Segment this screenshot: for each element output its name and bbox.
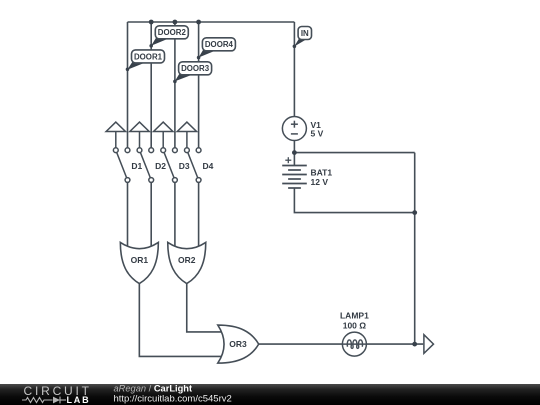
svg-text:D4: D4 [203,161,214,171]
flag DOOR2 [149,26,188,48]
wire OR3 out to lamp [259,343,342,345]
flag DOOR4 [197,38,236,60]
wire lamp to terminal [366,343,423,345]
svg-text:IN: IN [301,29,309,38]
lamp LAMP1 [342,332,366,356]
svg-text:D3: D3 [179,161,190,171]
junction dot rail-lamp [412,342,417,347]
svg-text:DOOR1: DOOR1 [134,52,163,61]
logo squiggle [22,397,66,404]
wire top bus [128,21,295,23]
or-gate OR3 [218,325,259,363]
battery plus sign [285,157,291,163]
svg-text:aRegan / CarLight: aRegan / CarLight [114,383,193,393]
wire door3 drop [174,22,176,148]
junction dot V1-BAT1 [292,150,297,155]
wire battery bottom [294,188,414,213]
junction dot bus-door4 [196,20,201,25]
terminal OUT triangle [424,335,434,354]
wire door1 drop [127,22,129,148]
svg-text:5 V: 5 V [311,129,324,139]
wire V1 bottom to battery [293,141,295,166]
flag IN [293,27,312,49]
wire IN drop to V1 [293,22,295,117]
wire V1 junction to right rail [294,152,414,154]
svg-text:DOOR2: DOOR2 [158,28,187,37]
wire D2 out to OR1 [150,182,152,252]
flag DOOR3 [173,62,212,83]
switch D2 [130,122,154,182]
or-gate OR2 [168,242,206,283]
switch D4 [177,122,201,182]
switch D1 [106,122,130,182]
junction dot bus-door2 [149,20,154,25]
svg-text:OR2: OR2 [178,255,196,265]
junction dot rail-battery [412,210,417,215]
voltage source V1 [282,117,306,141]
svg-text:OR3: OR3 [229,339,247,349]
wire D1 out to OR1 [127,182,129,252]
wire right rail [414,153,416,345]
logo diode [53,397,60,404]
or-gate OR1 [120,242,158,283]
svg-text:100 Ω: 100 Ω [343,321,367,331]
svg-text:D1: D1 [131,161,142,171]
wire OR1 out to OR3 [139,284,225,357]
svg-text:12 V: 12 V [311,177,329,187]
wire door2 drop [150,22,152,148]
svg-text:DOOR4: DOOR4 [205,40,234,49]
svg-text:LAMP1: LAMP1 [340,311,369,321]
svg-text:http://circuitlab.com/c545rv2: http://circuitlab.com/c545rv2 [114,393,232,404]
wire D3 out to OR2 [174,182,176,252]
svg-text:DOOR3: DOOR3 [181,64,210,73]
wire D4 out to OR2 [198,182,200,252]
wire OR2 out to OR3 [187,284,225,332]
footer bar [0,384,540,405]
svg-text:LAB: LAB [67,395,91,405]
svg-text:OR1: OR1 [131,255,149,265]
svg-text:D2: D2 [155,161,166,171]
switch D3 [154,122,178,182]
battery BAT1 [282,166,307,189]
flag DOOR1 [126,50,165,71]
junction dot bus-door3 [173,20,178,25]
wire door4 drop [198,22,200,148]
